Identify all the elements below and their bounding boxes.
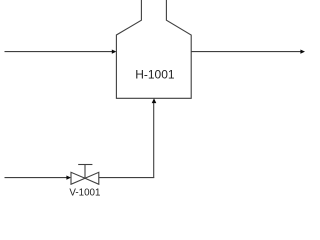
wire: top inlet line into furnace — [5, 51, 113, 53]
furnace H-1001 (vessel outline with two stacks clipped at top) — [116, 0, 191, 98]
wire: outlet line from furnace right wall — [191, 51, 301, 53]
svg-text:H-1001: H-1001 — [135, 68, 175, 82]
wire: vertical riser into furnace bottom — [153, 103, 155, 178]
arrowhead: into furnace bottom — [152, 98, 157, 103]
wire: bottom feed line (left segment up to valve) — [5, 177, 68, 179]
valve handle T-bar — [78, 164, 92, 166]
wire: bottom feed line (valve to riser) — [99, 177, 154, 179]
arrowhead: into valve V-1001 — [66, 176, 71, 180]
arrowhead: outlet end — [300, 50, 305, 54]
valve stem — [84, 165, 86, 179]
svg-text:V-1001: V-1001 — [69, 187, 100, 198]
valve V-1001 (gate valve bowtie) — [71, 165, 99, 185]
arrowhead: inlet into furnace left wall — [112, 50, 117, 54]
